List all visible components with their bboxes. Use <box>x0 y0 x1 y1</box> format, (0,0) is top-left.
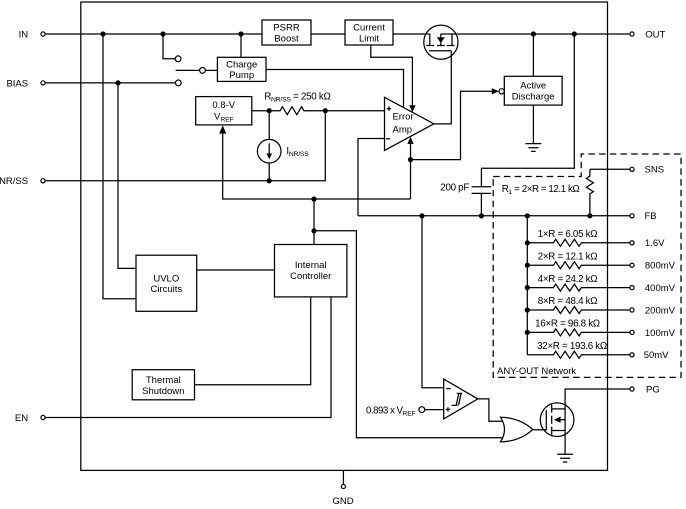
node dot 200pF tap <box>572 31 577 36</box>
wire OR output to PG FET gate <box>533 429 547 431</box>
svg-text:Circuits: Circuits <box>150 284 182 295</box>
svg-text:Boost: Boost <box>274 34 299 45</box>
label 16xR <box>535 319 600 330</box>
wire FET to OUT <box>441 33 630 35</box>
current source INR/SS <box>257 111 281 181</box>
switch throw contact from BIAS <box>175 80 181 86</box>
wire error amp inverting input from FB <box>358 139 385 216</box>
wire to active discharge input with arrow <box>411 88 505 160</box>
svg-text:RNR/SS = 250 kΩ: RNR/SS = 250 kΩ <box>264 92 330 104</box>
svg-text:100mV: 100mV <box>645 328 676 339</box>
wire UVLO to controller <box>197 269 275 271</box>
label R1 value <box>502 184 580 196</box>
resistor RNR/SS <box>252 107 385 115</box>
node dot IN rail tap <box>100 31 105 36</box>
block Internal Controller <box>275 245 347 297</box>
wire controller top branch <box>313 199 315 245</box>
svg-text:INR/SS: INR/SS <box>286 146 309 158</box>
svg-text:2×R = 12.1 kΩ: 2×R = 12.1 kΩ <box>538 251 598 262</box>
wire charge pump supply tap <box>240 34 242 57</box>
svg-text:GND: GND <box>332 496 353 507</box>
svg-text:Charge: Charge <box>226 59 257 70</box>
wire Current Limit to FET <box>393 33 430 35</box>
node dot active discharge tap <box>531 31 536 36</box>
block Charge Pump <box>217 57 266 81</box>
svg-text:FB: FB <box>645 211 657 222</box>
wire ladder rail <box>526 216 528 355</box>
svg-text:ANY-OUT Network: ANY-OUT Network <box>497 366 576 377</box>
resistor 32xR row <box>527 351 630 358</box>
svg-text:Active: Active <box>520 81 546 92</box>
resistor 8xR row <box>527 307 630 314</box>
wire charge pump output to error amp <box>266 70 404 108</box>
wire BIAS line <box>45 82 175 84</box>
pin 0.893 VREF input <box>419 407 444 413</box>
svg-text:0.8-V: 0.8-V <box>212 100 235 111</box>
node dot ladder 1.6V <box>525 240 530 245</box>
node dot ladder 800mV <box>525 263 530 268</box>
pin NR/SS <box>0 176 45 187</box>
wire error amp feedback node with arrow <box>407 137 413 199</box>
block Current Limit <box>345 20 393 45</box>
node dot 200pF bottom <box>479 213 484 218</box>
resistor 16xR row <box>527 329 630 336</box>
wire current limit to error amp with arrow <box>371 45 416 112</box>
label ANY-OUT Network <box>497 366 576 377</box>
label 200 pF <box>440 182 469 193</box>
label RNR/SS value <box>264 92 330 104</box>
pin 1.6V <box>630 238 665 249</box>
pin 100mV <box>630 328 676 339</box>
svg-text:Controller: Controller <box>290 271 331 282</box>
node dot ladder rail top <box>525 213 530 218</box>
node dot error amp to active discharge <box>408 157 413 162</box>
wire EN line to controller <box>45 297 331 418</box>
switch pole to charge pump <box>176 68 218 74</box>
wire PG FET source to ground <box>564 431 566 455</box>
svg-text:Shutdown: Shutdown <box>142 386 184 397</box>
label 8xR <box>538 296 598 307</box>
node dot ladder 100mV <box>525 330 530 335</box>
pin 400mV <box>630 283 676 294</box>
resistor 2xR row <box>527 262 630 269</box>
svg-text:IN: IN <box>19 29 29 40</box>
svg-text:4×R = 24.2 kΩ: 4×R = 24.2 kΩ <box>538 274 598 285</box>
wire IN line <box>45 33 262 35</box>
label INR/SS <box>286 146 309 158</box>
wire branch to OR gate rail <box>314 231 505 438</box>
svg-text:OUT: OUT <box>645 29 665 40</box>
resistor 1xR row <box>527 239 630 246</box>
capacitor 200 pF <box>472 187 492 216</box>
label 0.893 x VREF <box>366 405 415 417</box>
svg-text:PG: PG <box>646 384 660 395</box>
wire IN rail to UVLO <box>103 34 136 299</box>
wire PG FET drain to PG pin <box>565 389 630 409</box>
node dot switch tap <box>160 31 165 36</box>
pin OUT <box>630 29 666 40</box>
svg-text:R1 = 2×R = 12.1 kΩ: R1 = 2×R = 12.1 kΩ <box>502 184 580 196</box>
block PSRR Boost <box>262 20 311 45</box>
svg-text:Current: Current <box>353 23 385 34</box>
resistor 4xR row <box>527 284 630 291</box>
svg-text:50mV: 50mV <box>644 350 669 361</box>
wire NR/SS line <box>45 111 325 181</box>
svg-text:Discharge: Discharge <box>512 92 555 103</box>
wire comparator rail from FB <box>422 216 444 388</box>
transistor PG FET <box>540 403 574 437</box>
svg-text:SNS: SNS <box>645 165 665 176</box>
wire BIAS rail to UVLO <box>118 83 136 269</box>
node dot ladder 200mV <box>525 307 530 312</box>
pin PG <box>630 384 660 395</box>
label 2xR <box>538 251 598 262</box>
svg-text:8×R = 48.4 kΩ: 8×R = 48.4 kΩ <box>538 296 598 307</box>
svg-text:Limit: Limit <box>359 34 379 45</box>
block 0.8-V VREF <box>196 97 252 125</box>
ground symbol under PG FET <box>557 454 573 462</box>
wire VREF drive line <box>219 125 410 199</box>
block Thermal Shutdown <box>132 370 194 400</box>
block Active Discharge <box>504 76 562 105</box>
node dot R1 bottom <box>587 213 592 218</box>
wire active discharge to ground <box>532 105 534 143</box>
node dot controller branch <box>311 196 316 201</box>
svg-text:Internal: Internal <box>295 260 327 271</box>
node dot charge pump tap <box>238 31 243 36</box>
pin 50mV <box>630 350 669 361</box>
pin FB <box>630 211 657 222</box>
pin 800mV <box>630 261 676 272</box>
node dot current source top <box>267 108 272 113</box>
svg-text:32×R = 193.6 kΩ: 32×R = 193.6 kΩ <box>537 341 607 352</box>
svg-text:BIAS: BIAS <box>6 78 28 89</box>
pin EN <box>15 413 45 424</box>
wire 200pF tap from OUT <box>481 34 574 187</box>
wire comparator output to OR gate <box>478 399 505 421</box>
pin 200mV <box>630 305 676 316</box>
node dot OR rail branch <box>311 228 316 233</box>
svg-text:200mV: 200mV <box>645 305 676 316</box>
node dot ladder 400mV <box>525 285 530 290</box>
node dot BIAS rail tap <box>115 80 120 85</box>
outer chip boundary box <box>81 2 608 470</box>
svg-text:Error: Error <box>392 112 413 123</box>
svg-text:Thermal: Thermal <box>146 375 181 386</box>
OR gate <box>501 417 533 442</box>
pin IN <box>19 29 46 40</box>
pin BIAS <box>6 78 45 89</box>
svg-text:Amp: Amp <box>393 124 413 135</box>
wire OUT to active discharge <box>532 34 534 76</box>
label 1xR <box>538 229 598 240</box>
svg-text:1.6V: 1.6V <box>645 238 665 249</box>
wire PSRR to Current Limit <box>311 33 345 35</box>
switch throw contact from IN <box>163 34 181 62</box>
svg-text:NR/SS: NR/SS <box>0 176 28 187</box>
svg-text:UVLO: UVLO <box>153 273 179 284</box>
svg-text:0.893 x VREF: 0.893 x VREF <box>366 405 415 417</box>
node dot current source bottom <box>267 178 272 183</box>
svg-text:400mV: 400mV <box>645 283 676 294</box>
pin GND <box>332 470 353 506</box>
op-amp error amplifier <box>385 97 434 150</box>
wire SNS line <box>590 168 630 170</box>
label 32xR <box>537 341 607 352</box>
wire FB line <box>358 215 630 217</box>
svg-text:16×R = 96.8 kΩ: 16×R = 96.8 kΩ <box>535 319 600 330</box>
node dot NR/SS rail top <box>323 108 328 113</box>
label 4xR <box>538 274 598 285</box>
node dot comparator rail <box>419 213 424 218</box>
resistor R1 vertical <box>586 169 593 216</box>
svg-text:EN: EN <box>15 413 28 424</box>
comparator with hysteresis <box>444 379 478 419</box>
svg-text:PSRR: PSRR <box>273 23 300 34</box>
svg-text:1×R = 6.05 kΩ: 1×R = 6.05 kΩ <box>538 229 598 240</box>
block UVLO Circuits <box>136 255 197 311</box>
svg-text:200 pF: 200 pF <box>440 182 469 193</box>
wire controller to thermal shutdown <box>195 297 311 385</box>
pass transistor Q1 <box>424 25 458 124</box>
svg-text:Pump: Pump <box>229 70 254 81</box>
svg-text:800mV: 800mV <box>645 261 676 272</box>
dashed ANY-OUT network outline <box>493 154 681 377</box>
pin SNS <box>630 165 664 176</box>
ground symbol under active discharge <box>526 144 542 152</box>
